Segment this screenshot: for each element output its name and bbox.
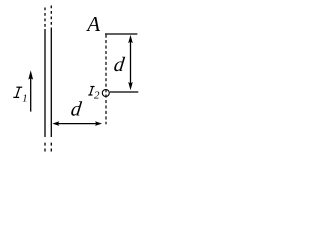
vertical d dimension arrow [128, 35, 133, 90]
label I1 [13, 87, 22, 97]
wire line right (solid) [50, 29, 52, 137]
wire line left (dashed bottom) [44, 143, 46, 153]
wire line left (dashed top) [44, 8, 46, 30]
svg-text:A: A [85, 12, 100, 36]
dashed construction line from A down to I2 arrow level [105, 35, 107, 125]
current I1 arrow [28, 70, 33, 111]
wire line right (dashed top) [50, 6, 52, 30]
I2 horizontal line [110, 91, 138, 93]
circle at I2 (wire cross-section) [102, 90, 109, 97]
svg-text:1: 1 [22, 93, 27, 104]
top horizontal line (through A level) [105, 33, 137, 35]
wire line right (dashed bottom) [50, 143, 52, 153]
svg-text:2: 2 [94, 90, 100, 102]
label I2 [88, 87, 94, 96]
bottom d dimension arrow [52, 121, 102, 126]
wire line left (solid) [44, 29, 46, 137]
